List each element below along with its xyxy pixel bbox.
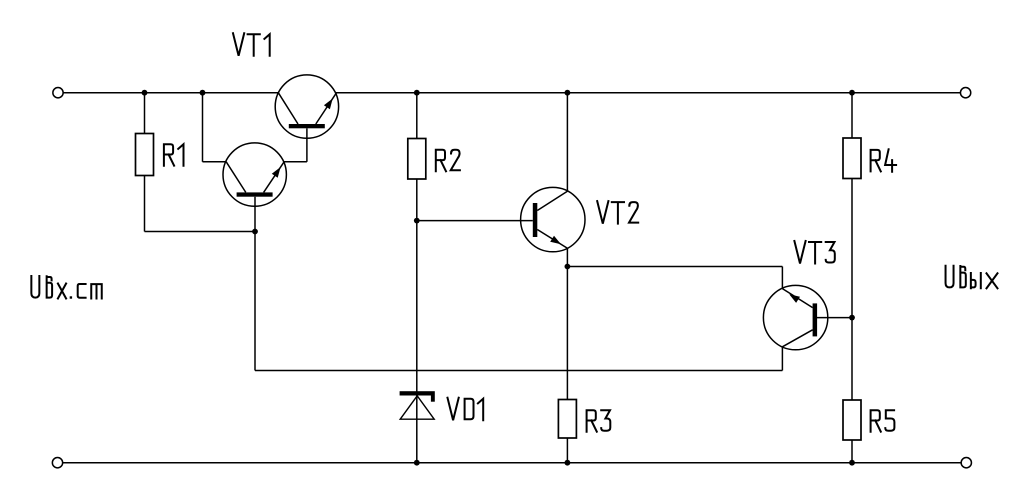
transistor VT1 upper base bar xyxy=(289,124,325,128)
transistor VT2 emitter arrow xyxy=(550,236,561,245)
wire R4 top xyxy=(851,93,853,138)
transistor VT3 emitter lead xyxy=(782,289,812,308)
wire VT2 base xyxy=(417,220,533,222)
wire R4 bottom to R5 xyxy=(851,179,853,401)
diode VD1 cathode bar xyxy=(400,391,435,395)
transistor VT3 circle xyxy=(763,285,827,349)
transistor VT1 upper circle xyxy=(275,75,338,138)
label VT3 xyxy=(794,241,834,264)
resistor R3 xyxy=(558,400,576,439)
diode VD1 anode triangle xyxy=(400,396,434,419)
node R1 / VT1 base lead xyxy=(252,229,258,235)
transistor VT2 circle xyxy=(521,187,585,251)
transistor VT2 collector lead xyxy=(537,191,567,210)
wire VT1.b emitter to VT1.a base xyxy=(284,161,307,163)
wire VT1.b collector vertical xyxy=(202,93,204,162)
label VD1 xyxy=(448,398,484,421)
resistor R5 xyxy=(843,400,861,440)
node top rail / VT1.b collector xyxy=(200,90,206,96)
wire VT3 collector vertical xyxy=(781,347,783,371)
transistor VT1 lower emitter arrow xyxy=(272,167,281,178)
node top rail / R4 xyxy=(849,90,855,96)
input terminal + (top-left) xyxy=(53,88,63,98)
transistor VT1 lower circle xyxy=(223,143,286,206)
label VT2 xyxy=(597,201,638,224)
transistor VT3 base bar xyxy=(813,303,818,336)
wire VT3 base xyxy=(816,317,852,319)
node top rail / R2 xyxy=(414,90,420,96)
node top rail / VT2 collector xyxy=(565,90,571,96)
output terminal + (top-right) xyxy=(960,88,970,98)
wire VT2 collector to top rail xyxy=(566,93,568,192)
node R2 / VT2 base xyxy=(414,218,420,224)
transistor VT1 upper emitter lead xyxy=(316,93,336,124)
transistor VT1 lower base bar xyxy=(237,192,273,196)
wire VT1.b base lead down xyxy=(254,197,256,371)
wire VT2 emitter down xyxy=(566,248,568,399)
diode VD1 zener tick xyxy=(431,396,435,402)
wire VT3 emitter vertical xyxy=(781,267,783,289)
resistor R1 xyxy=(136,134,154,176)
node bottom rail / VD1 xyxy=(414,460,420,466)
transistor VT3 collector lead xyxy=(782,330,812,347)
wire R2 top xyxy=(416,93,418,139)
node bottom rail / R5 xyxy=(849,460,855,466)
label R2 xyxy=(436,150,460,172)
transistor VT1 lower collector lead xyxy=(226,162,246,193)
transistor VT1 lower emitter lead xyxy=(264,162,285,193)
wire VT1.a base lead down xyxy=(306,128,308,162)
wire R1 bottom xyxy=(144,176,146,232)
label VT1 xyxy=(233,33,270,56)
wire R5 bottom xyxy=(851,440,853,463)
transistor VT2 base bar xyxy=(533,203,538,237)
wire top rail right segment (VT1 emitter to output) xyxy=(336,92,961,94)
label Uvyx (output voltage) xyxy=(946,266,998,289)
resistor R2 xyxy=(408,139,426,180)
label R1 xyxy=(164,144,184,166)
wire VT1.b collector horizontal xyxy=(203,161,227,163)
label R5 xyxy=(871,410,895,432)
wire bottom rail xyxy=(63,462,961,464)
transistor VT3 emitter arrow xyxy=(789,294,800,303)
output terminal - (bottom-right) xyxy=(961,458,971,468)
wire R1 top xyxy=(144,93,146,134)
node top rail / R1 xyxy=(142,90,148,96)
wire R1 to VT1 base xyxy=(145,231,256,233)
label Uvx.st (input voltage) xyxy=(31,276,101,299)
wire VT1 base to VT3 collector horizontal xyxy=(255,370,782,372)
node bottom rail / R3 xyxy=(565,460,571,466)
wire VT2 emitter to VT3 emitter horizontal xyxy=(567,266,782,268)
label R3 xyxy=(587,410,611,432)
node VT2 emitter junction xyxy=(565,264,571,270)
transistor VT2 emitter lead xyxy=(537,230,567,249)
wire top rail left segment (input to VT1 collector) xyxy=(63,92,278,94)
resistor R4 xyxy=(843,138,861,179)
wire R2 bottom to VD1 xyxy=(416,179,418,463)
input terminal - (bottom-left) xyxy=(52,458,62,468)
transistor VT1 upper emitter arrow xyxy=(324,99,333,110)
node VT3 base / divider xyxy=(849,315,855,321)
wire R3 bottom xyxy=(566,438,568,463)
label R4 xyxy=(871,149,897,172)
transistor VT1 upper collector lead xyxy=(278,93,298,124)
